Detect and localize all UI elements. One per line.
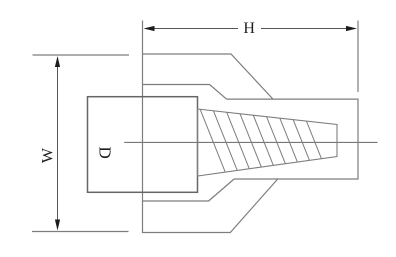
body rectangle xyxy=(227,99,359,179)
cone hatching xyxy=(198,105,330,180)
inner shell bottom line xyxy=(143,179,235,201)
wire: H left extension line xyxy=(142,21,144,55)
svg-text:D: D xyxy=(96,146,115,158)
svg-text:H: H xyxy=(243,20,255,37)
dimension line W xyxy=(55,56,60,231)
centerline axis xyxy=(124,141,377,143)
inner shell top line xyxy=(143,85,227,100)
dimension line H xyxy=(144,26,358,31)
outer shell outline xyxy=(143,54,278,233)
svg-text:W: W xyxy=(40,147,57,163)
wire: H right extension line xyxy=(357,21,359,93)
wire: W bottom extension line xyxy=(32,231,129,233)
cone outline xyxy=(198,109,338,176)
D rectangle xyxy=(88,97,198,193)
wire: W top extension line xyxy=(33,54,130,56)
